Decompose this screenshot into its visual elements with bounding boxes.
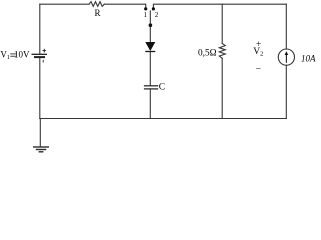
ground symbol [33, 147, 49, 152]
label V1=10V [0, 50, 30, 61]
svg-text:V1: V1 [0, 50, 10, 61]
wire bottom horizontal [40, 118, 286, 120]
svg-text:R: R [95, 8, 101, 18]
switch terminal dot 1 [144, 7, 147, 10]
wire capacitor to bottom wire [149, 89, 151, 119]
diode D1 [145, 42, 155, 52]
wire left branch vertical from top wire to battery [39, 4, 41, 54]
wire 0.5ohm to bottom wire [221, 58, 223, 118]
switch terminal dot 2 [152, 7, 155, 10]
resistor 0.5ohm zigzag [219, 44, 225, 59]
battery V1 bottom plate [34, 56, 45, 58]
battery V1 top plate [32, 53, 48, 55]
current source arrow [285, 51, 289, 63]
svg-text:10A: 10A [301, 53, 316, 63]
wire diode cathode to capacitor [149, 52, 151, 86]
battery plus sign [43, 49, 47, 53]
wire switch pole down to diode [149, 11, 151, 42]
switch pole junction dot [149, 23, 153, 27]
wire 0.5ohm branch from top wire to zigzag [221, 4, 223, 43]
wire current source branch bottom [285, 65, 287, 118]
svg-text:1: 1 [143, 11, 147, 19]
svg-text:0,5Ω: 0,5Ω [198, 49, 217, 59]
wire current source branch top [285, 4, 287, 49]
wire battery to bottom wire [39, 57, 41, 118]
wire top-left horizontal from left branch to resistor R [40, 3, 89, 5]
wire from resistor R to switch terminal 1 [104, 4, 145, 7]
battery minus tick [42, 60, 44, 63]
wire ground stem [39, 119, 41, 147]
capacitor C plates [144, 86, 158, 89]
svg-text:10V: 10V [14, 50, 30, 60]
svg-text:V2: V2 [253, 47, 263, 58]
svg-text:2: 2 [155, 11, 159, 19]
wire switch terminal 2 riser and top-right horizontal to current source branch [153, 4, 286, 7]
resistor R [89, 2, 104, 7]
svg-text:C: C [159, 83, 165, 93]
svg-text:−: − [256, 64, 261, 74]
current source I1 circle [278, 49, 294, 65]
